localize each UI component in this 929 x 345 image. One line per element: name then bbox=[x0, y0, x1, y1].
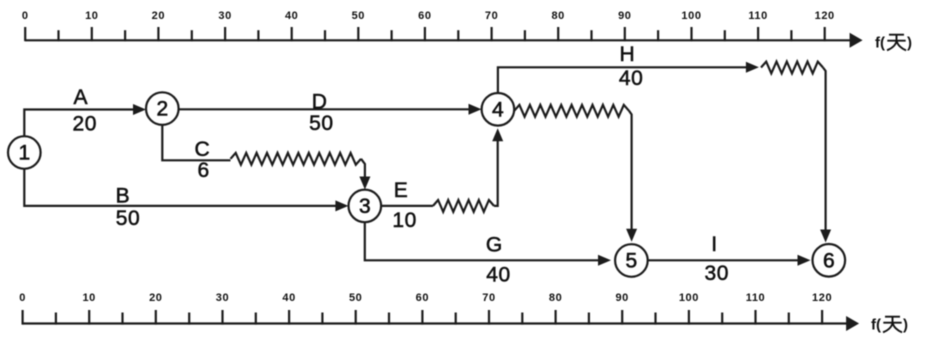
svg-text:20: 20 bbox=[73, 113, 98, 136]
svg-text:1: 1 bbox=[18, 142, 30, 165]
svg-text:90: 90 bbox=[615, 292, 628, 304]
svg-text:70: 70 bbox=[482, 292, 495, 304]
wire H from node 4 top bbox=[498, 67, 756, 93]
svg-text:10: 10 bbox=[82, 292, 95, 304]
node 6 bbox=[813, 244, 846, 277]
bottom ruler axis line bbox=[23, 322, 849, 324]
svg-text:90: 90 bbox=[618, 10, 631, 22]
svg-text:0: 0 bbox=[22, 10, 29, 22]
top ruler ticks bbox=[25, 27, 825, 41]
arrowhead H mid-line bbox=[746, 62, 759, 73]
arrowhead I into node 6 bbox=[798, 255, 811, 266]
svg-text:6: 6 bbox=[197, 159, 209, 182]
wire H free-float zigzag bbox=[761, 62, 823, 74]
top axis unit label f(tian) bbox=[875, 35, 912, 52]
svg-text:120: 120 bbox=[812, 292, 832, 304]
svg-text:f(: f( bbox=[875, 35, 885, 52]
svg-text:I: I bbox=[711, 233, 717, 256]
svg-text:100: 100 bbox=[679, 292, 699, 304]
wire D from node 2 to node 4 bbox=[179, 108, 479, 110]
node 1 bbox=[8, 136, 41, 169]
node 3 bbox=[349, 190, 382, 223]
svg-text:30: 30 bbox=[705, 262, 730, 285]
svg-text:f(: f( bbox=[871, 317, 881, 334]
svg-text:10: 10 bbox=[85, 10, 98, 22]
bottom axis unit label f(tian) bbox=[871, 317, 908, 334]
wire E from node 3 bbox=[381, 205, 433, 207]
svg-text:60: 60 bbox=[416, 292, 429, 304]
zigzag drop into node 5 bbox=[629, 111, 632, 239]
svg-text:E: E bbox=[394, 179, 409, 202]
svg-text:70: 70 bbox=[485, 10, 498, 22]
svg-text:C: C bbox=[195, 138, 211, 161]
node 4 free-float zigzag bbox=[514, 105, 629, 117]
arrowhead B into node 3 bbox=[335, 200, 348, 211]
svg-text:G: G bbox=[486, 234, 503, 257]
node 2 bbox=[146, 92, 179, 125]
svg-text:B: B bbox=[116, 185, 131, 208]
arrowhead A into node 2 bbox=[133, 104, 146, 115]
svg-text:80: 80 bbox=[549, 292, 562, 304]
svg-text:60: 60 bbox=[418, 10, 431, 22]
svg-text:10: 10 bbox=[392, 209, 417, 232]
svg-text:30: 30 bbox=[218, 10, 231, 22]
svg-text:A: A bbox=[73, 86, 88, 109]
svg-text:50: 50 bbox=[349, 292, 362, 304]
svg-text:D: D bbox=[312, 90, 328, 113]
arrowhead G into node 5 bbox=[598, 255, 611, 266]
wire C from node 2 bbox=[162, 125, 230, 160]
top ruler axis line bbox=[25, 39, 852, 41]
svg-text:): ) bbox=[903, 317, 908, 334]
svg-text:20: 20 bbox=[152, 10, 165, 22]
svg-text:3: 3 bbox=[359, 195, 371, 218]
svg-text:40: 40 bbox=[282, 292, 295, 304]
bottom ruler ticks bbox=[23, 310, 823, 325]
svg-text:0: 0 bbox=[19, 292, 26, 304]
wire G from node 3 to node 5 bbox=[365, 222, 608, 260]
bottom axis arrowhead bbox=[846, 316, 859, 331]
svg-text:6: 6 bbox=[823, 249, 835, 272]
arrowhead C into node 3 bbox=[359, 177, 370, 190]
arrowhead zigzag into node 5 bbox=[626, 229, 637, 242]
wire I from node 5 to node 6 bbox=[648, 259, 808, 261]
svg-text:110: 110 bbox=[748, 10, 768, 22]
svg-text:50: 50 bbox=[116, 207, 141, 230]
svg-text:40: 40 bbox=[285, 10, 298, 22]
svg-text:50: 50 bbox=[352, 10, 365, 22]
wire H drop into node 6 bbox=[823, 68, 826, 240]
wire B from node 1 bbox=[24, 169, 345, 206]
svg-text:120: 120 bbox=[815, 10, 835, 22]
wire E rise into node 4 bbox=[494, 131, 498, 206]
svg-text:50: 50 bbox=[309, 112, 334, 135]
svg-text:40: 40 bbox=[619, 67, 644, 90]
svg-text:40: 40 bbox=[486, 264, 511, 287]
svg-text:20: 20 bbox=[149, 292, 162, 304]
svg-text:110: 110 bbox=[746, 292, 766, 304]
wire A vertical from node 1 bbox=[24, 110, 143, 137]
wire C drop into node 3 bbox=[361, 159, 365, 187]
top axis arrowhead bbox=[850, 33, 863, 48]
arrowhead E into node 4 bbox=[492, 128, 503, 141]
svg-text:80: 80 bbox=[551, 10, 564, 22]
wire E free-float zigzag bbox=[433, 200, 494, 212]
arrowhead D into node 4 bbox=[469, 104, 482, 115]
node 5 bbox=[615, 244, 648, 277]
svg-text:): ) bbox=[907, 35, 912, 52]
node 4 bbox=[482, 93, 515, 126]
svg-text:100: 100 bbox=[681, 10, 701, 22]
svg-text:H: H bbox=[620, 43, 636, 66]
svg-text:5: 5 bbox=[626, 250, 638, 273]
arrowhead H into node 6 bbox=[820, 230, 831, 243]
svg-text:2: 2 bbox=[156, 98, 168, 121]
svg-text:30: 30 bbox=[216, 292, 229, 304]
svg-text:4: 4 bbox=[492, 98, 504, 121]
wire C free-float zigzag bbox=[231, 153, 362, 165]
